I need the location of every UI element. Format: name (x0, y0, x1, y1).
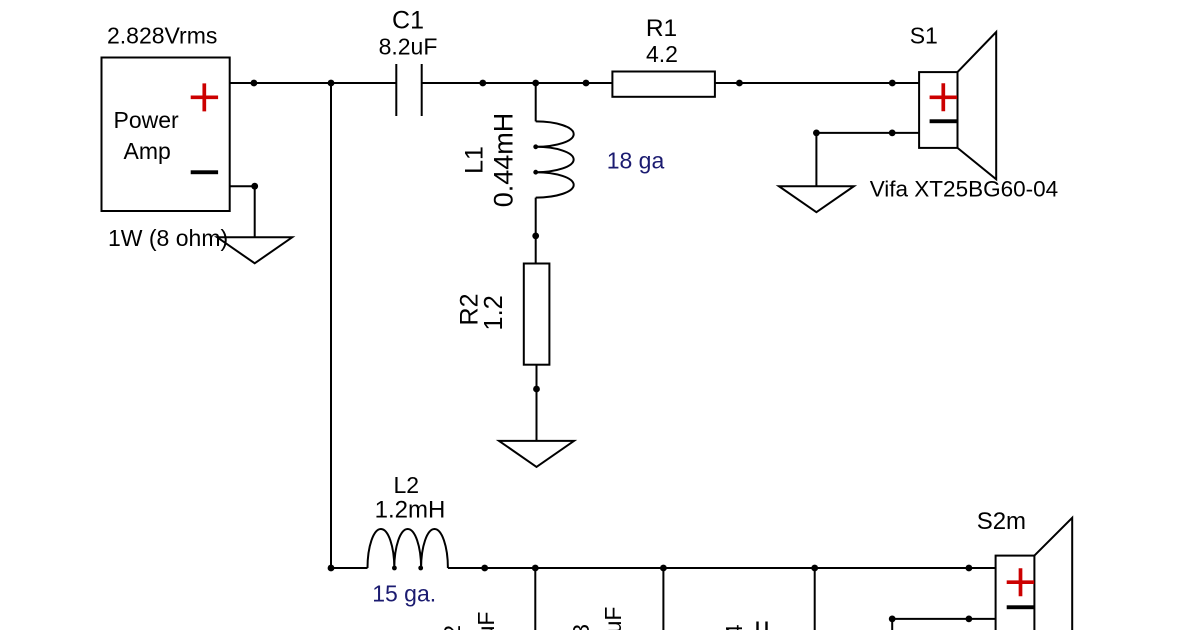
resistor R2 (524, 264, 550, 365)
svg-text:L2: L2 (394, 472, 420, 498)
wire R2 to ground (536, 365, 538, 441)
wire S1 minus lead (816, 132, 919, 134)
svg-text:4.2: 4.2 (646, 41, 678, 67)
svg-text:18 ga: 18 ga (607, 148, 665, 174)
plus terminal power amp (191, 83, 218, 111)
speaker S2m driver box (996, 556, 1035, 630)
minus terminal power amp (191, 170, 218, 174)
capacitor C1 (396, 64, 421, 116)
wire L1 to R2 (535, 198, 537, 264)
junction dots S1 (813, 130, 820, 137)
wire power amp minus lead (230, 186, 255, 237)
wire S1 ground lead (815, 133, 817, 186)
svg-text:Amp: Amp (124, 138, 171, 164)
plus terminal S1 (930, 83, 958, 111)
svg-text:8.2uF: 8.2uF (379, 34, 438, 60)
junction dots S2m minus wire (889, 616, 896, 623)
wire bottom rail segment 2 (448, 567, 996, 569)
svg-text:16uF: 16uF (473, 612, 499, 630)
svg-text:C2: C2 (439, 625, 465, 630)
junction dots top rail (251, 80, 973, 623)
svg-text:38uF: 38uF (600, 607, 626, 630)
ground G3 (499, 441, 574, 467)
wire top rail segment 3 (715, 82, 919, 84)
svg-text:L4: L4 (721, 624, 747, 630)
svg-text:S1: S1 (910, 23, 938, 49)
power amp box V1 (102, 58, 230, 212)
svg-text:1.2mH: 1.2mH (375, 497, 446, 524)
plus terminal S2m (1007, 568, 1034, 596)
svg-text:0.44mH: 0.44mH (489, 113, 519, 208)
wire bottom rail segment 1 (331, 567, 368, 569)
svg-text:C3: C3 (568, 624, 594, 630)
svg-text:Power: Power (114, 107, 180, 133)
ground G2 speaker S1 (779, 186, 854, 212)
inductor L2 (368, 529, 448, 568)
wire left vertical drop (330, 83, 332, 568)
svg-text:1W (8 ohm): 1W (8 ohm) (108, 225, 228, 251)
svg-text:15 ga.: 15 ga. (372, 581, 436, 607)
speaker S2m horn (1034, 518, 1072, 630)
wire C3 drop (662, 568, 664, 630)
wire top rail segment 2 (422, 82, 613, 84)
svg-text:Vifa XT25BG60-04: Vifa XT25BG60-04 (870, 177, 1058, 202)
svg-text:1.2: 1.2 (480, 295, 508, 330)
wire S2m minus lead (892, 618, 995, 620)
ground G1 power amp (217, 237, 292, 263)
wire top rail segment 1 (230, 82, 397, 84)
label L4 value (rotated, clipped) (758, 622, 767, 630)
inductor L1 (536, 121, 574, 197)
resistor R1 (612, 72, 715, 97)
speaker S1 horn (958, 32, 997, 179)
minus terminal S2m (1007, 605, 1034, 609)
svg-text:2.828Vrms: 2.828Vrms (107, 23, 217, 49)
junction dot power amp minus (251, 183, 258, 190)
wire L4 drop (814, 568, 816, 630)
wire L1 top lead (535, 83, 537, 121)
minus terminal S1 (930, 119, 958, 123)
svg-text:C1: C1 (392, 7, 424, 35)
svg-text:L1: L1 (461, 146, 489, 174)
wire C2 drop (534, 568, 536, 630)
svg-text:R1: R1 (646, 15, 677, 42)
wire S2m ground drop (891, 619, 893, 630)
junction dots L1 column (533, 144, 538, 149)
speaker S1 driver box (919, 72, 957, 148)
junction dots bottom rail (328, 565, 335, 572)
svg-text:S2m: S2m (977, 508, 1026, 535)
